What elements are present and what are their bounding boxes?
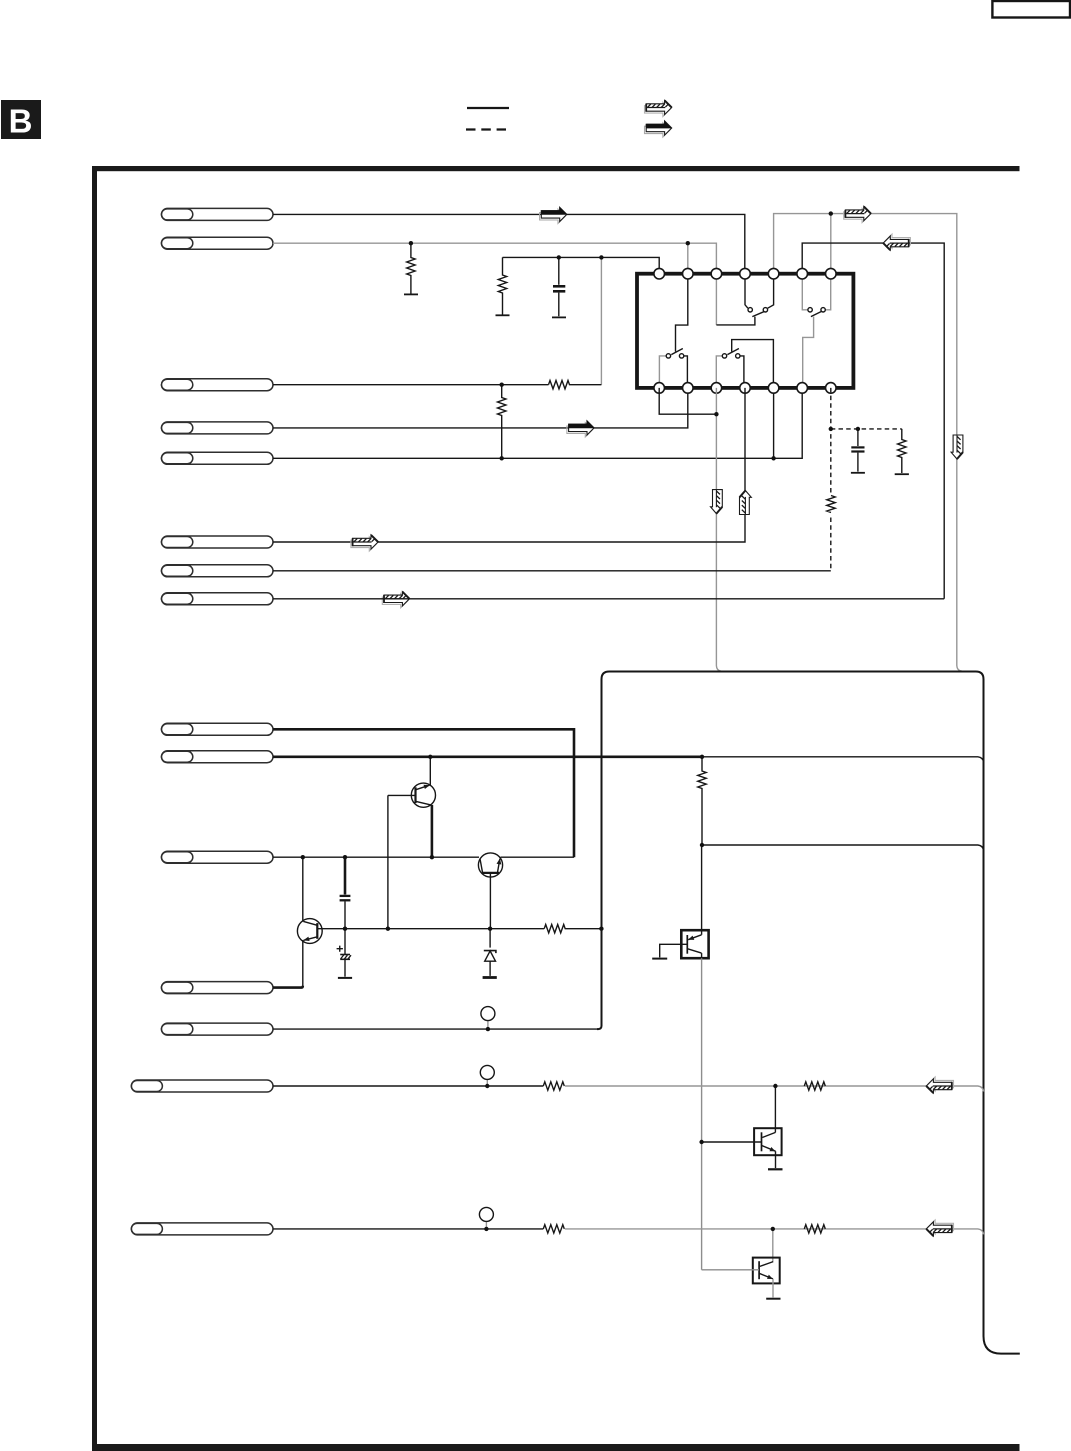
node P11/Q1 emitter bbox=[430, 855, 434, 859]
resistor R5 bbox=[895, 429, 909, 474]
legend solid arrow bbox=[645, 121, 673, 137]
wire P11 line bbox=[273, 856, 479, 858]
wire SW4 right contact to pin4 bottom bbox=[740, 356, 744, 383]
arrow hatched left on pin6 run bbox=[883, 234, 910, 250]
IC pin 9 bottom bbox=[683, 383, 694, 394]
wire P5 line to IC pin6 bottom bbox=[273, 388, 802, 458]
wire SW2 control to pin6 bottom (grey) bbox=[803, 317, 814, 383]
electrolytic capacitor C4 bbox=[337, 929, 353, 978]
wire drop to IC pin7 top (grey) bbox=[830, 214, 832, 274]
wire pin7 bottom dashed to P7 line bbox=[830, 388, 832, 571]
node rail/C3 bbox=[343, 927, 347, 931]
resistor R12 bbox=[804, 1225, 825, 1233]
arrow hatched up on pin4 column bbox=[740, 491, 752, 515]
connector pin P8 bbox=[162, 593, 274, 605]
test point TP1 stem bbox=[487, 1021, 489, 1030]
connector pin P6 bbox=[162, 536, 274, 548]
IC pin 6 top bbox=[797, 268, 808, 279]
transistor Q3 bbox=[297, 857, 345, 986]
legend hatched arrow bbox=[645, 100, 672, 116]
cable bus outline with P13 stub bbox=[597, 672, 1020, 1354]
node P3/R4 bbox=[500, 383, 504, 387]
node P10/R7 bbox=[700, 755, 704, 759]
test point TP3 bbox=[479, 1207, 493, 1221]
wire PC2 base to x702 column bbox=[702, 1141, 762, 1143]
node rail/D1 bbox=[488, 927, 492, 931]
wire SW4 left contact to pin3 bottom (grey) bbox=[716, 356, 722, 383]
IC pin 12 bottom bbox=[768, 383, 779, 394]
wire supply rail to IC pin1 top bbox=[503, 257, 660, 273]
node P15 test point bbox=[484, 1227, 488, 1231]
wire R7 node down to opto PC1 bbox=[701, 845, 703, 935]
node R7/bus line bbox=[700, 843, 704, 847]
connector pin P14 bbox=[131, 1080, 273, 1092]
switch SW2 bbox=[808, 308, 825, 317]
connector pin P12 bbox=[162, 982, 274, 994]
test point TP2 bbox=[480, 1065, 494, 1079]
connector pin P1 bbox=[162, 208, 274, 220]
connector pin P13 bbox=[162, 1023, 274, 1035]
node P5/R4 bbox=[500, 456, 504, 460]
wire P1 to IC pin4 top bbox=[273, 214, 745, 273]
wire SW3 right contact to pin2 bottom bbox=[684, 356, 688, 383]
wire P8 line bbox=[273, 598, 944, 600]
wire P15 line bbox=[273, 1228, 543, 1230]
wire P6 line to pin4 bottom bbox=[273, 388, 745, 542]
wire SW4 control to pin5 bottom bbox=[732, 340, 774, 383]
arrow hatched left on P14 line bbox=[926, 1077, 953, 1093]
IC pin 11 bottom bbox=[740, 383, 751, 394]
wire Q1 base riser bbox=[387, 795, 389, 928]
connector pin P10 bbox=[162, 751, 274, 763]
wire drop to IC pin2 top (grey) bbox=[687, 243, 689, 274]
node rail/R3a riser bbox=[599, 255, 603, 259]
transistor Q1 bbox=[388, 757, 436, 857]
wire pin7 top to SW2 right contact (grey) bbox=[825, 279, 830, 310]
wire IC pin6 top to x944 column down to P8 line bbox=[802, 243, 944, 599]
opto transistor PC3 bbox=[753, 1258, 781, 1299]
wire mid line into bus bbox=[702, 845, 984, 851]
test point TP1 bbox=[481, 1007, 495, 1021]
resistor R8 (horizontal) bbox=[544, 925, 601, 933]
wire rail to R8 bbox=[345, 928, 544, 930]
opto transistor PC2 bbox=[754, 1128, 782, 1169]
node P13 test point bbox=[486, 1027, 490, 1031]
wire riser P3 line to rail (grey) bbox=[600, 257, 602, 384]
node P15/PC3 collector bbox=[771, 1227, 775, 1231]
wire IC pin5 bottom drop bbox=[773, 388, 775, 458]
title reference box (top right) bbox=[992, 1, 1070, 18]
IC pin 4 top bbox=[740, 268, 751, 279]
IC pin 13 bottom bbox=[797, 383, 808, 394]
node P5/pin5 bbox=[771, 456, 775, 460]
node x702/PC2 base bbox=[699, 1140, 703, 1144]
node rail/bus edge bbox=[599, 927, 603, 931]
wire P14 line right (grey) bbox=[565, 1086, 984, 1092]
schematic frame top border bbox=[92, 166, 1020, 171]
node dashed branch bbox=[829, 427, 833, 431]
page index marker B bbox=[1, 100, 41, 140]
connector pin P15 bbox=[131, 1223, 273, 1235]
zener diode D1 bbox=[483, 929, 497, 978]
svg-text:B: B bbox=[9, 103, 33, 140]
wire pin6 top to SW2 left contact (grey) bbox=[802, 279, 808, 310]
switch SW4 bbox=[722, 349, 740, 359]
test point TP2 stem bbox=[486, 1079, 488, 1086]
node P14 test point bbox=[485, 1084, 489, 1088]
connector pin P4 bbox=[162, 422, 274, 434]
wire pin4 top to SW1 left contact bbox=[745, 279, 748, 308]
wire P14 line bbox=[273, 1085, 543, 1087]
node rail/Q1 base riser bbox=[386, 927, 390, 931]
wire switch SW1 control link bbox=[716, 317, 755, 325]
wire P9 line (thick) bbox=[273, 729, 574, 857]
resistor R9 bbox=[543, 1082, 564, 1090]
IC pin 14 bottom bbox=[826, 383, 837, 394]
node P11/Q3 collector bbox=[301, 855, 305, 859]
resistor R3 (horizontal) bbox=[549, 381, 602, 389]
connector pin P7 bbox=[162, 565, 274, 577]
capacitor C3 bbox=[340, 857, 351, 929]
schematic frame left border bbox=[92, 166, 97, 1451]
legend solid line bbox=[467, 107, 509, 109]
connector pin P3 bbox=[162, 379, 274, 391]
node P14/PC2 collector bbox=[773, 1084, 777, 1088]
arrow hatched on pin5 run bbox=[844, 207, 871, 223]
IC pin 3 top bbox=[711, 268, 722, 279]
node P10/Q1 collector bbox=[428, 755, 432, 759]
arrow out on P1 line bbox=[540, 207, 568, 223]
arrow hatched left on P15 line bbox=[926, 1220, 953, 1236]
node pin1/pin3 column bbox=[714, 412, 718, 416]
IC pin 7 top bbox=[826, 268, 837, 279]
arrow hatched down on pin3 column bbox=[711, 490, 723, 514]
capacitor C1 bbox=[552, 257, 566, 317]
wire P10 line (thick) bbox=[273, 755, 702, 758]
legend dashed line bbox=[466, 128, 506, 130]
wire pin5 top to SW1 right contact bbox=[768, 279, 774, 308]
switch SW1 bbox=[748, 308, 768, 317]
connector pin P2 bbox=[162, 237, 274, 249]
IC pin 8 bottom bbox=[654, 383, 665, 394]
IC pin 1 top bbox=[654, 268, 665, 279]
wire x702 column to PC3 base bbox=[702, 1269, 760, 1271]
wire pin3 bottom down into bus (grey) bbox=[716, 388, 721, 671]
analog switch IC U1 body bbox=[637, 274, 853, 388]
arrow out on P4 line bbox=[567, 421, 595, 437]
connector pin P9 bbox=[162, 723, 274, 735]
capacitor C2 bbox=[851, 429, 865, 473]
IC pin 10 bottom bbox=[711, 383, 722, 394]
arrow hatched down on right column bbox=[951, 435, 963, 459]
resistor R10 bbox=[804, 1082, 825, 1090]
arrow hatched on P8 line bbox=[382, 592, 409, 608]
wire SW3 left contact to pin1 bottom (grey) bbox=[659, 356, 666, 383]
resistor R11 bbox=[543, 1225, 564, 1233]
wire pin3 top control drop (grey) bbox=[715, 279, 717, 325]
wire P2 to IC pin3 top (grey) bbox=[273, 243, 716, 274]
resistor R4 (vertical between P3 and P5 lines) bbox=[498, 385, 506, 459]
wire IC pin5 top to right column (grey) bbox=[774, 214, 962, 671]
node P2/pin2 bbox=[686, 241, 690, 245]
wire P7 line bbox=[273, 570, 831, 572]
wire dashed branch right bbox=[831, 428, 902, 430]
wire PC2 collector stub bbox=[774, 1086, 776, 1132]
resistor R1 bbox=[404, 243, 418, 294]
switch SW3 bbox=[666, 349, 684, 359]
connector pin P5 bbox=[162, 452, 274, 464]
wire P9 link to Q2 bbox=[501, 856, 575, 858]
wire pin1 bottom to pin3 column bbox=[659, 388, 716, 414]
test point TP3 stem bbox=[485, 1221, 487, 1229]
node branch/C2 bbox=[856, 427, 860, 431]
node pin7 drop bbox=[829, 211, 833, 215]
transistor Q2 bbox=[478, 853, 502, 929]
wire pin2 top to switch SW3 control bbox=[676, 279, 688, 352]
wire P13 line bbox=[273, 1028, 598, 1030]
wire PC1 emitter down (grey) bbox=[701, 953, 703, 958]
wire P15 line right (grey) bbox=[565, 1229, 984, 1235]
node rail/C1 bbox=[557, 255, 561, 259]
node P2/R1 bbox=[409, 241, 413, 245]
opto transistor PC1 bbox=[652, 930, 708, 958]
connector pin P11 bbox=[162, 851, 274, 863]
wire P10 line into bus bbox=[702, 757, 984, 763]
wire PC3 collector stub (grey) bbox=[772, 1229, 774, 1262]
schematic frame bottom border bbox=[92, 1444, 1020, 1451]
resistor R7 (on P10 drop) bbox=[698, 757, 706, 845]
wire P3 line bbox=[273, 384, 549, 386]
arrow hatched on P6 line bbox=[351, 535, 378, 551]
resistor R2 bbox=[496, 257, 510, 315]
wire P12 line (thick) bbox=[273, 986, 303, 988]
wire P4 to IC pin2 bottom bbox=[273, 388, 688, 428]
IC pin 5 top bbox=[768, 268, 779, 279]
node P11/C3 bbox=[343, 855, 347, 859]
IC pin 2 top bbox=[683, 268, 694, 279]
resistor R6 (in dashed column) bbox=[827, 496, 835, 513]
